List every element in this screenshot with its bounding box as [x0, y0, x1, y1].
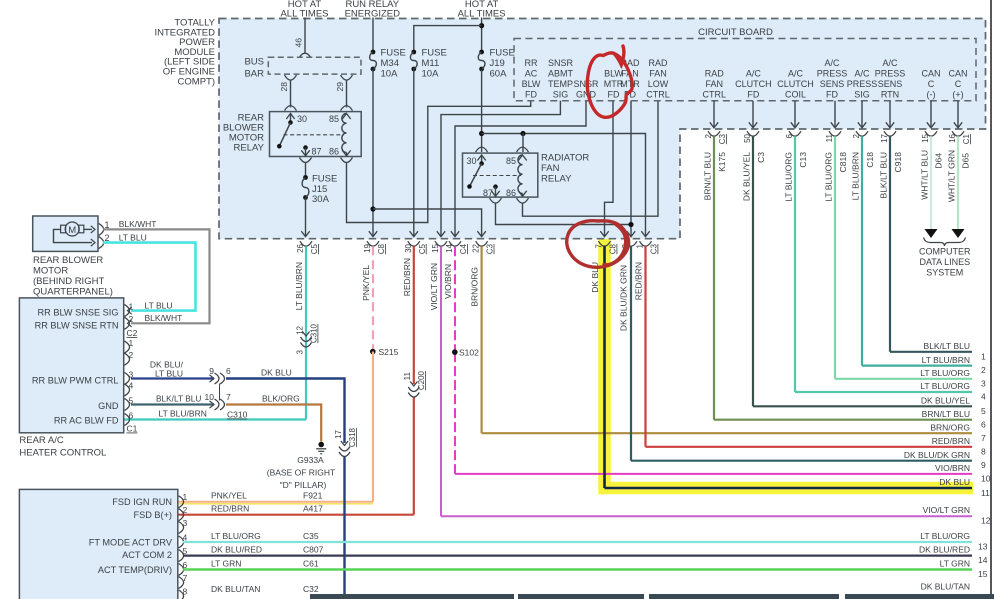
- svg-text:A/C: A/C: [746, 69, 762, 79]
- svg-text:M: M: [68, 225, 76, 236]
- red circle annotation pin7 C8: [567, 221, 629, 268]
- svg-text:BLK/WHT: BLK/WHT: [119, 219, 157, 229]
- svg-text:CTRL: CTRL: [703, 90, 727, 100]
- wire BLK/LT BLU C918 vertical: [889, 136, 891, 352]
- relay pin 86: [341, 150, 353, 162]
- svg-text:REAR A/C: REAR A/C: [19, 435, 63, 446]
- circuit board pin label RR AC BLW FD: [522, 58, 541, 100]
- boundary exit pin 6 at x795: [789, 101, 801, 136]
- bottom connector bar segment 4: [845, 594, 994, 599]
- wire LT BLU/BRN horizontal pin2: [862, 365, 972, 367]
- label BLK/LT BLU C918: [879, 152, 904, 199]
- wire DK BLU to C318: [226, 379, 345, 596]
- svg-text:7: 7: [183, 573, 188, 583]
- wire BRN/LT BLU K175 vertical: [713, 136, 715, 420]
- TIPM exit pin 14 labels: [445, 243, 468, 254]
- label BRN/LT BLU K175: [703, 152, 728, 201]
- svg-text:FD: FD: [608, 90, 620, 100]
- svg-text:15: 15: [921, 133, 930, 142]
- svg-text:RR BLW SNSE SIG: RR BLW SNSE SIG: [38, 307, 119, 317]
- svg-text:22: 22: [472, 243, 481, 252]
- relay rear blower motor label: [223, 113, 265, 154]
- bus bar box: [268, 57, 361, 74]
- wire DK BLU/YEL horizontal pin5: [753, 405, 972, 407]
- svg-text:FD: FD: [525, 90, 537, 100]
- rear ac heater control label: [19, 435, 106, 459]
- C310 9-6 labels: [209, 366, 231, 376]
- wire DK BLU vertical: [603, 246, 606, 488]
- svg-text:7: 7: [226, 392, 231, 402]
- heater pin C1-4: [125, 381, 134, 396]
- circuit board pin label RAD FAN MTR FD: [620, 58, 640, 100]
- svg-text:17: 17: [880, 133, 889, 142]
- svg-text:SYSTEM: SYSTEM: [926, 268, 963, 278]
- svg-text:26: 26: [296, 243, 305, 252]
- rad relay coil: [518, 155, 523, 194]
- labels C32 line: [211, 582, 970, 595]
- svg-text:FAN: FAN: [541, 163, 560, 174]
- TIPM exit pin 30 labels: [404, 243, 427, 254]
- svg-text:RR AC BLW FD: RR AC BLW FD: [54, 415, 119, 425]
- wire BLK/LT BLU horizontal pin1: [890, 351, 972, 353]
- svg-text:RED/BRN: RED/BRN: [634, 262, 644, 300]
- pin 29 label: [335, 82, 345, 92]
- label BLK/WHT top: [119, 219, 157, 229]
- junction M34 to BRN ORG branch: [370, 206, 375, 211]
- svg-text:C5: C5: [310, 243, 319, 254]
- svg-text:VIO/LT GRN: VIO/LT GRN: [429, 263, 439, 310]
- svg-text:28: 28: [279, 82, 289, 92]
- circuit board box: [514, 39, 976, 101]
- rad relay pin 87 label: [483, 188, 493, 198]
- svg-text:A/C: A/C: [882, 58, 898, 68]
- label WHT/LT GRN D65: [947, 150, 971, 202]
- svg-text:1: 1: [183, 492, 188, 502]
- circuit board pin label A/C PRESS SENS RTN: [875, 58, 906, 100]
- svg-text:FD: FD: [747, 90, 759, 100]
- svg-text:DK BLU/TAN: DK BLU/TAN: [921, 582, 970, 592]
- splice S102: [452, 348, 479, 358]
- TIPM exit pin 7 labels: [595, 243, 618, 254]
- wire VIO/LT GRN horizontal pin12: [441, 515, 972, 517]
- svg-text:TEMP: TEMP: [548, 79, 573, 89]
- fsd pin 2: [179, 505, 188, 521]
- wire J19 branch to rad fan 85: [522, 134, 524, 153]
- labels C61 line: [211, 559, 988, 580]
- wire BLW MTR FD to pin 7: [600, 101, 613, 237]
- fuse M34 10A: [369, 50, 377, 237]
- svg-text:DK BLU/DK GRN: DK BLU/DK GRN: [904, 450, 970, 460]
- relay rear blower motor box: [270, 112, 362, 157]
- svg-text:COIL: COIL: [785, 90, 806, 100]
- inline connector C310 9-6: [210, 373, 225, 384]
- svg-text:30A: 30A: [312, 194, 330, 205]
- rad relay pin 30 label: [467, 156, 477, 166]
- wire PNK/YEL lower: [372, 352, 374, 502]
- svg-text:FAN: FAN: [649, 69, 667, 79]
- svg-text:PRESS: PRESS: [847, 79, 878, 89]
- svg-text:C1: C1: [962, 133, 971, 144]
- wire RED/BRN C3 vertical: [644, 246, 646, 447]
- TIPM exit pin 22 labels: [472, 243, 495, 254]
- svg-text:LT BLU/ORG: LT BLU/ORG: [920, 381, 970, 391]
- svg-text:BRN/LT BLU: BRN/LT BLU: [703, 152, 713, 200]
- svg-text:10: 10: [981, 473, 991, 483]
- TIPM exit pin 1 labels: [636, 243, 659, 254]
- inline connector C310 12-3: [301, 332, 312, 348]
- exit pin 16 labels: [948, 133, 971, 144]
- svg-text:BLK/ORG: BLK/ORG: [262, 394, 300, 404]
- C310 label: [227, 410, 248, 420]
- label right DK BLU/YEL 5: [921, 396, 986, 416]
- TIPM exit connector pin 8: [625, 241, 637, 246]
- fuse J19 label: [490, 48, 515, 80]
- svg-text:85: 85: [506, 156, 516, 166]
- svg-text:FUSE: FUSE: [312, 173, 337, 184]
- svg-text:1: 1: [636, 243, 645, 248]
- fsd module pin names: [89, 497, 173, 575]
- label right BRN/LT BLU 6: [922, 409, 986, 429]
- svg-text:LT BLU/ORG: LT BLU/ORG: [211, 531, 261, 541]
- label right LT BLU/ORG 4: [920, 381, 986, 401]
- svg-text:C200: C200: [417, 370, 426, 390]
- svg-text:CIRCUIT BOARD: CIRCUIT BOARD: [698, 27, 773, 38]
- wire run relay feed: [372, 18, 374, 52]
- wire pin 28 bus bar to relay 30: [285, 75, 297, 107]
- svg-text:2: 2: [129, 314, 134, 324]
- fsd pin 8: [179, 586, 188, 599]
- label BLK/LT BLU: [156, 394, 201, 404]
- motor leads: [54, 226, 96, 246]
- svg-text:85: 85: [329, 114, 339, 124]
- svg-text:A/C: A/C: [854, 69, 870, 79]
- wire J19 to RED BRN pin 1: [482, 134, 650, 237]
- svg-text:CTRL: CTRL: [646, 90, 670, 100]
- svg-text:87: 87: [483, 188, 493, 198]
- ground G933A: [316, 442, 326, 454]
- svg-text:RADIATOR: RADIATOR: [541, 153, 589, 164]
- svg-text:6: 6: [785, 133, 794, 138]
- labels C807 line: [211, 545, 988, 566]
- wire pin 29 bus bar to relay 85: [341, 75, 353, 107]
- circuit board pin label A/C PRESS SENS FD: [817, 58, 848, 100]
- svg-text:2: 2: [704, 133, 713, 138]
- wire LT BLU/ORG horizontal pin3: [835, 378, 972, 380]
- TIPM exit pin 26 labels: [296, 243, 319, 254]
- svg-text:BRN/ORG: BRN/ORG: [930, 422, 970, 432]
- label LT BLU/ORG C818: [824, 152, 849, 202]
- svg-text:BRN/LT BLU: BRN/LT BLU: [922, 409, 970, 419]
- heater C1 label: [127, 424, 138, 434]
- relay pin 87: [300, 145, 312, 162]
- svg-text:LT BLU: LT BLU: [145, 300, 173, 310]
- wire DK BLU/LT BLU: [131, 377, 214, 379]
- label BLK/WHT lower: [145, 313, 183, 323]
- labels C35 line: [211, 531, 988, 552]
- label DK BLU/DK GRN 9: [904, 450, 986, 470]
- svg-text:10A: 10A: [381, 69, 399, 80]
- svg-text:1: 1: [129, 338, 134, 348]
- svg-text:RTN: RTN: [881, 90, 899, 100]
- label LT BLU lower: [145, 300, 173, 310]
- wire F921 horizontal: [178, 502, 373, 504]
- svg-text:6: 6: [129, 410, 134, 420]
- exit pin 11 labels: [825, 133, 834, 142]
- svg-text:GND: GND: [98, 401, 119, 411]
- svg-text:3: 3: [296, 349, 305, 354]
- svg-text:LT BLU: LT BLU: [155, 368, 183, 378]
- svg-text:C32: C32: [303, 584, 319, 594]
- circuit board label: [698, 27, 773, 38]
- svg-text:BRN/ORG: BRN/ORG: [470, 267, 480, 307]
- bottom connector bar segment 1: [310, 594, 514, 599]
- fuse J15 30A: [301, 162, 309, 237]
- junction J19 node A: [479, 131, 484, 136]
- wire RAD FAN MTR FD: [627, 101, 635, 237]
- relay pin 85 label: [329, 114, 339, 124]
- relay radiator fan label: [541, 153, 589, 185]
- svg-text:SIG: SIG: [553, 90, 569, 100]
- svg-text:5: 5: [981, 406, 986, 416]
- wire DK BLU/DK GRN label: [619, 265, 629, 331]
- rear ac heater control box: [19, 298, 123, 433]
- svg-text:ABMT: ABMT: [548, 69, 574, 79]
- svg-text:C8: C8: [377, 243, 386, 254]
- boundary exit pin 11 at x835: [829, 101, 841, 136]
- rad relay pin 85 label: [506, 156, 516, 166]
- rear blower motor box: [33, 216, 98, 251]
- svg-text:LT BLU/BRN: LT BLU/BRN: [922, 355, 970, 365]
- svg-text:FT MODE ACT DRV: FT MODE ACT DRV: [89, 537, 173, 547]
- svg-text:86: 86: [329, 147, 339, 157]
- svg-text:G933A: G933A: [297, 455, 324, 465]
- wire VIO/LT GRN label: [429, 263, 439, 310]
- svg-text:BAR: BAR: [244, 69, 264, 80]
- wire LT BLU/ORG C818 vertical: [834, 136, 836, 379]
- label LT BLU/ORG C13: [784, 152, 809, 202]
- inline connector C318: [339, 441, 350, 457]
- svg-text:WHT/LT GRN: WHT/LT GRN: [947, 150, 957, 202]
- svg-text:LT BLU/BRN: LT BLU/BRN: [159, 409, 207, 419]
- svg-text:1: 1: [981, 351, 986, 361]
- svg-text:BLK/LT BLU: BLK/LT BLU: [879, 152, 889, 198]
- svg-text:J19: J19: [490, 58, 505, 69]
- label RED/BRN 8: [932, 436, 986, 456]
- svg-text:C2: C2: [127, 328, 138, 338]
- circuit board pin label A/C CLUTCH COIL: [777, 69, 814, 100]
- svg-text:46: 46: [294, 38, 304, 48]
- fsd pin 6: [179, 560, 188, 576]
- svg-text:7: 7: [595, 243, 604, 248]
- wire VIO/BRN dashed: [454, 246, 456, 474]
- circuit board pin label SNSR ABMT TEMP SIG: [548, 58, 574, 100]
- TIPM exit pin 15 labels: [431, 243, 440, 252]
- svg-text:DK BLU/YEL: DK BLU/YEL: [742, 152, 752, 201]
- label RED/BRN A417: [211, 504, 323, 514]
- svg-text:RR BLW SNSE RTN: RR BLW SNSE RTN: [35, 321, 119, 331]
- svg-text:SENS: SENS: [820, 79, 845, 89]
- wire WHT/LT BLU D64: [930, 136, 932, 229]
- wire BLK/WHT sense: [103, 229, 210, 327]
- svg-text:15: 15: [978, 569, 988, 579]
- svg-text:C5: C5: [418, 243, 427, 254]
- rear ac heater control pin names: [32, 307, 119, 425]
- svg-text:LT GRN: LT GRN: [940, 559, 970, 569]
- circuit board pin label CAN C (-): [921, 69, 940, 100]
- svg-text:C: C: [955, 79, 962, 89]
- svg-text:SENS: SENS: [878, 79, 903, 89]
- bus bar label: [244, 57, 264, 80]
- svg-text:2: 2: [183, 505, 188, 515]
- wire BRN/ORG label: [470, 267, 480, 307]
- svg-text:7: 7: [981, 433, 986, 443]
- label DK BLU mid: [261, 368, 292, 378]
- rad relay dashed link: [473, 175, 521, 177]
- fsd module box: [19, 489, 177, 599]
- wire DK BLU/DK GRN horizontal pin9: [631, 460, 972, 462]
- svg-text:S102: S102: [459, 348, 479, 358]
- pin 46 label: [294, 38, 304, 48]
- svg-text:30: 30: [467, 156, 477, 166]
- svg-text:C807: C807: [303, 545, 324, 555]
- svg-text:D64: D64: [934, 153, 944, 169]
- label VIO/BRN 10: [935, 463, 991, 483]
- junction J19 to rad fan coil: [520, 131, 525, 136]
- wire DK BLU/RED C807: [183, 554, 972, 556]
- svg-text:LT BLU/ORG: LT BLU/ORG: [920, 531, 970, 541]
- svg-text:17: 17: [334, 429, 343, 438]
- svg-text:LT GRN: LT GRN: [211, 559, 241, 569]
- circuit board pin label BLW MTR FD: [604, 69, 624, 100]
- label WHT/LT BLU D64: [920, 150, 944, 200]
- TIPM exit connector pin 22: [476, 241, 488, 246]
- rear blower motor label: [33, 255, 113, 298]
- svg-text:C818: C818: [838, 152, 848, 173]
- label LT BLU top: [119, 232, 147, 242]
- svg-text:C1: C1: [127, 424, 138, 434]
- svg-text:29: 29: [335, 82, 345, 92]
- svg-text:CAN: CAN: [921, 69, 940, 79]
- svg-text:F921: F921: [303, 491, 323, 501]
- svg-text:15: 15: [431, 243, 440, 252]
- svg-text:6: 6: [226, 366, 231, 376]
- svg-text:BLK/LT BLU: BLK/LT BLU: [156, 394, 201, 404]
- svg-text:COMPUTER: COMPUTER: [919, 247, 971, 257]
- svg-text:S215: S215: [379, 347, 399, 357]
- svg-text:16: 16: [948, 133, 957, 142]
- wire PNK/YEL label: [361, 265, 371, 301]
- wire hot feed to bus bar: [304, 18, 306, 53]
- svg-text:CLUTCH: CLUTCH: [777, 79, 814, 89]
- wire VIO/LT GRN vertical: [440, 246, 442, 516]
- svg-text:6: 6: [981, 419, 986, 429]
- TIPM exit connector pin 1: [640, 241, 652, 246]
- fsd pin 3: [179, 518, 188, 534]
- svg-text:VIO/LT GRN: VIO/LT GRN: [923, 505, 970, 515]
- svg-text:J15: J15: [312, 184, 327, 195]
- wire VIO/BRN label: [443, 264, 453, 299]
- exit pin 6 labels: [785, 133, 794, 138]
- svg-text:30: 30: [297, 114, 307, 124]
- svg-text:C: C: [928, 79, 935, 89]
- wire BRN/ORG horizontal pin7: [482, 432, 972, 434]
- heater pin C1-1: [125, 338, 134, 353]
- svg-text:M34: M34: [381, 58, 399, 69]
- boundary exit pin 15 at x931: [925, 101, 937, 136]
- svg-text:10A: 10A: [422, 69, 440, 80]
- run relay energized label: [345, 0, 401, 20]
- fuse M11 label: [422, 48, 447, 80]
- svg-text:RED/BRN: RED/BRN: [402, 258, 412, 296]
- svg-text:13: 13: [978, 542, 988, 552]
- circuit board pin label SNSR GND: [573, 79, 599, 100]
- circuit board pin label A/C CLUTCH FD: [735, 69, 772, 100]
- motor pin 1 connector: [99, 223, 104, 235]
- wire DK BLU/DK GRN vertical: [630, 246, 632, 461]
- svg-text:COMPT): COMPT): [178, 76, 215, 87]
- boundary exit pin 2 at x862: [856, 101, 868, 136]
- label right LT BLU/BRN 2: [922, 355, 986, 375]
- wire LT GRN C61: [183, 568, 972, 571]
- wire RED/BRN C3 label: [634, 262, 644, 300]
- wire DK BLU label: [590, 262, 600, 293]
- label VIO/LT GRN 12: [923, 505, 991, 525]
- TIPM exit connector pin 14: [449, 241, 461, 246]
- wire BLK/LT BLU: [131, 403, 214, 405]
- svg-text:CLUTCH: CLUTCH: [735, 79, 772, 89]
- svg-text:BUS: BUS: [244, 57, 264, 68]
- fsd pin 4: [179, 532, 188, 548]
- svg-text:60A: 60A: [490, 69, 508, 80]
- TIPM exit connector pin 7: [599, 241, 611, 246]
- svg-text:RR: RR: [525, 58, 538, 68]
- svg-text:SNSR: SNSR: [548, 58, 574, 68]
- exit pin 15 labels: [921, 133, 930, 142]
- svg-text:C18: C18: [865, 152, 875, 168]
- svg-text:C310: C310: [227, 410, 248, 420]
- svg-text:2: 2: [981, 365, 986, 375]
- label BRN/ORG 7: [930, 422, 986, 442]
- wire BRN/ORG vertical: [481, 246, 483, 433]
- TIPM boundary dashed border: [219, 19, 986, 239]
- svg-text:FSD IGN RUN: FSD IGN RUN: [112, 497, 172, 507]
- computer data lines brace: [924, 238, 966, 247]
- svg-text:RAD: RAD: [705, 69, 725, 79]
- label PNK/YEL F921: [211, 491, 323, 501]
- hot at all times label 2: [458, 0, 506, 20]
- svg-text:DK BLU/DK GRN: DK BLU/DK GRN: [619, 265, 629, 331]
- wire hot feed 2: [479, 18, 484, 52]
- relay switch blade: [277, 123, 291, 149]
- svg-text:(BEHIND RIGHT: (BEHIND RIGHT: [33, 276, 104, 287]
- fsd pin 1: [179, 492, 188, 508]
- pin 28 label: [279, 82, 289, 92]
- wire LT BLU/BRN vertical: [305, 246, 307, 419]
- C200 labels: [403, 370, 426, 390]
- svg-text:AC: AC: [525, 69, 538, 79]
- svg-text:C318: C318: [348, 427, 357, 447]
- svg-text:LT BLU/ORG: LT BLU/ORG: [920, 368, 970, 378]
- svg-text:C4: C4: [459, 243, 468, 254]
- svg-text:30: 30: [404, 243, 413, 252]
- wire BLK/ORG to ground: [226, 405, 321, 442]
- heater C2 label: [127, 328, 138, 338]
- TIPM exit connector pin 26: [300, 241, 312, 246]
- red circle annotation BLW MTR FD: [587, 46, 632, 117]
- svg-text:12: 12: [981, 516, 991, 526]
- rad relay pin 30 connector: [476, 147, 488, 166]
- svg-text:3: 3: [981, 378, 986, 388]
